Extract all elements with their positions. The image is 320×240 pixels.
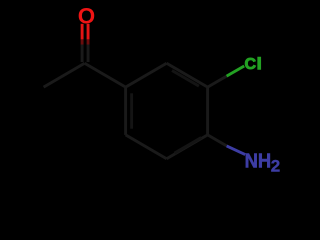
bond C=O double bond, oxygen half (red): [82, 24, 88, 40]
inner line of a4-a5: [174, 138, 201, 154]
svg-text:NH: NH: [245, 151, 272, 173]
inner line of a6-a1: [130, 93, 133, 128]
bond carbonyl C to ring C1: [85, 63, 126, 87]
ring bond a2-a3: [167, 63, 208, 87]
bond C=O double bond, carbon half (dark): [82, 45, 88, 63]
ring bond a4-a5: [167, 135, 208, 159]
ring bond a5-a6: [126, 135, 167, 159]
bond ring C3 to Cl, chlorine half (green): [227, 66, 245, 76]
aromatic inner double-bond lines: [132, 71, 202, 154]
bond C=O double bond, fade segment below midpoint: [82, 39, 88, 44]
svg-text:O: O: [78, 4, 95, 29]
ring bond a1-a2: [126, 63, 167, 87]
bond ring C4 to N, nitrogen half (blue): [227, 146, 246, 155]
svg-text:C: C: [245, 56, 257, 73]
svg-text:l: l: [257, 56, 261, 73]
inner line of a2-a3: [172, 71, 199, 87]
svg-text:2: 2: [271, 156, 280, 175]
bond ring C4 to N, carbon half (dark): [208, 135, 227, 146]
bond carbonyl C to methyl CH3: [44, 63, 85, 87]
ring bond a3-a4: [206, 87, 209, 135]
ring bond a6-a1: [124, 87, 127, 135]
bond ring C3 to Cl, carbon half (dark): [208, 76, 227, 87]
benzene ring outer bonds: [126, 63, 208, 158]
